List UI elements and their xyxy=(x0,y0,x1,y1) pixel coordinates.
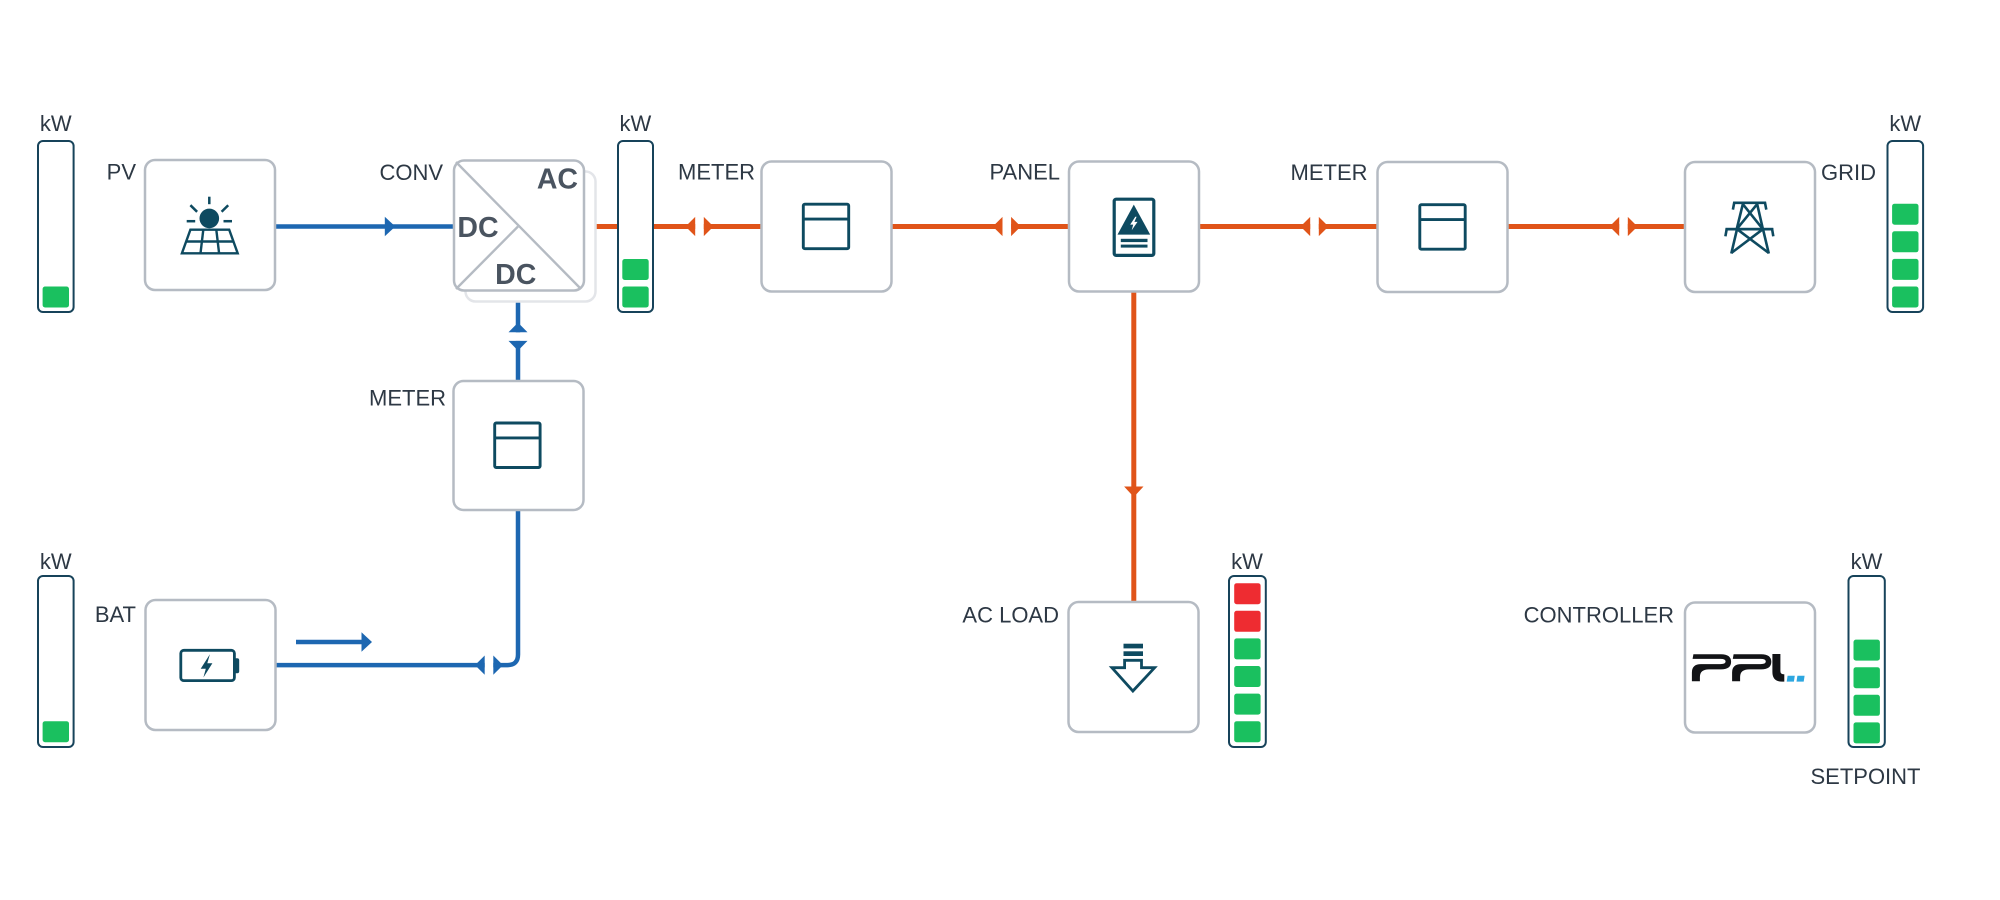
svg-text:METER: METER xyxy=(678,160,755,185)
svg-text:kW: kW xyxy=(1231,549,1263,574)
svg-text:kW: kW xyxy=(40,111,72,136)
svg-text:GRID: GRID xyxy=(1821,160,1876,185)
svg-text:DC: DC xyxy=(495,259,536,291)
svg-text:PV: PV xyxy=(107,160,137,185)
svg-text:METER: METER xyxy=(1291,160,1368,185)
svg-text:DC: DC xyxy=(457,212,498,244)
svg-text:AC LOAD: AC LOAD xyxy=(962,603,1059,628)
svg-text:kW: kW xyxy=(1851,549,1883,574)
svg-text:kW: kW xyxy=(1889,111,1921,136)
svg-text:PANEL: PANEL xyxy=(989,160,1060,185)
svg-text:kW: kW xyxy=(40,549,72,574)
svg-text:BAT: BAT xyxy=(95,602,136,627)
svg-text:kW: kW xyxy=(620,111,652,136)
svg-text:AC: AC xyxy=(537,164,578,196)
svg-text:SETPOINT: SETPOINT xyxy=(1810,764,1920,789)
svg-text:METER: METER xyxy=(369,386,446,411)
svg-text:CONTROLLER: CONTROLLER xyxy=(1524,603,1674,628)
svg-text:CONV: CONV xyxy=(379,160,443,185)
